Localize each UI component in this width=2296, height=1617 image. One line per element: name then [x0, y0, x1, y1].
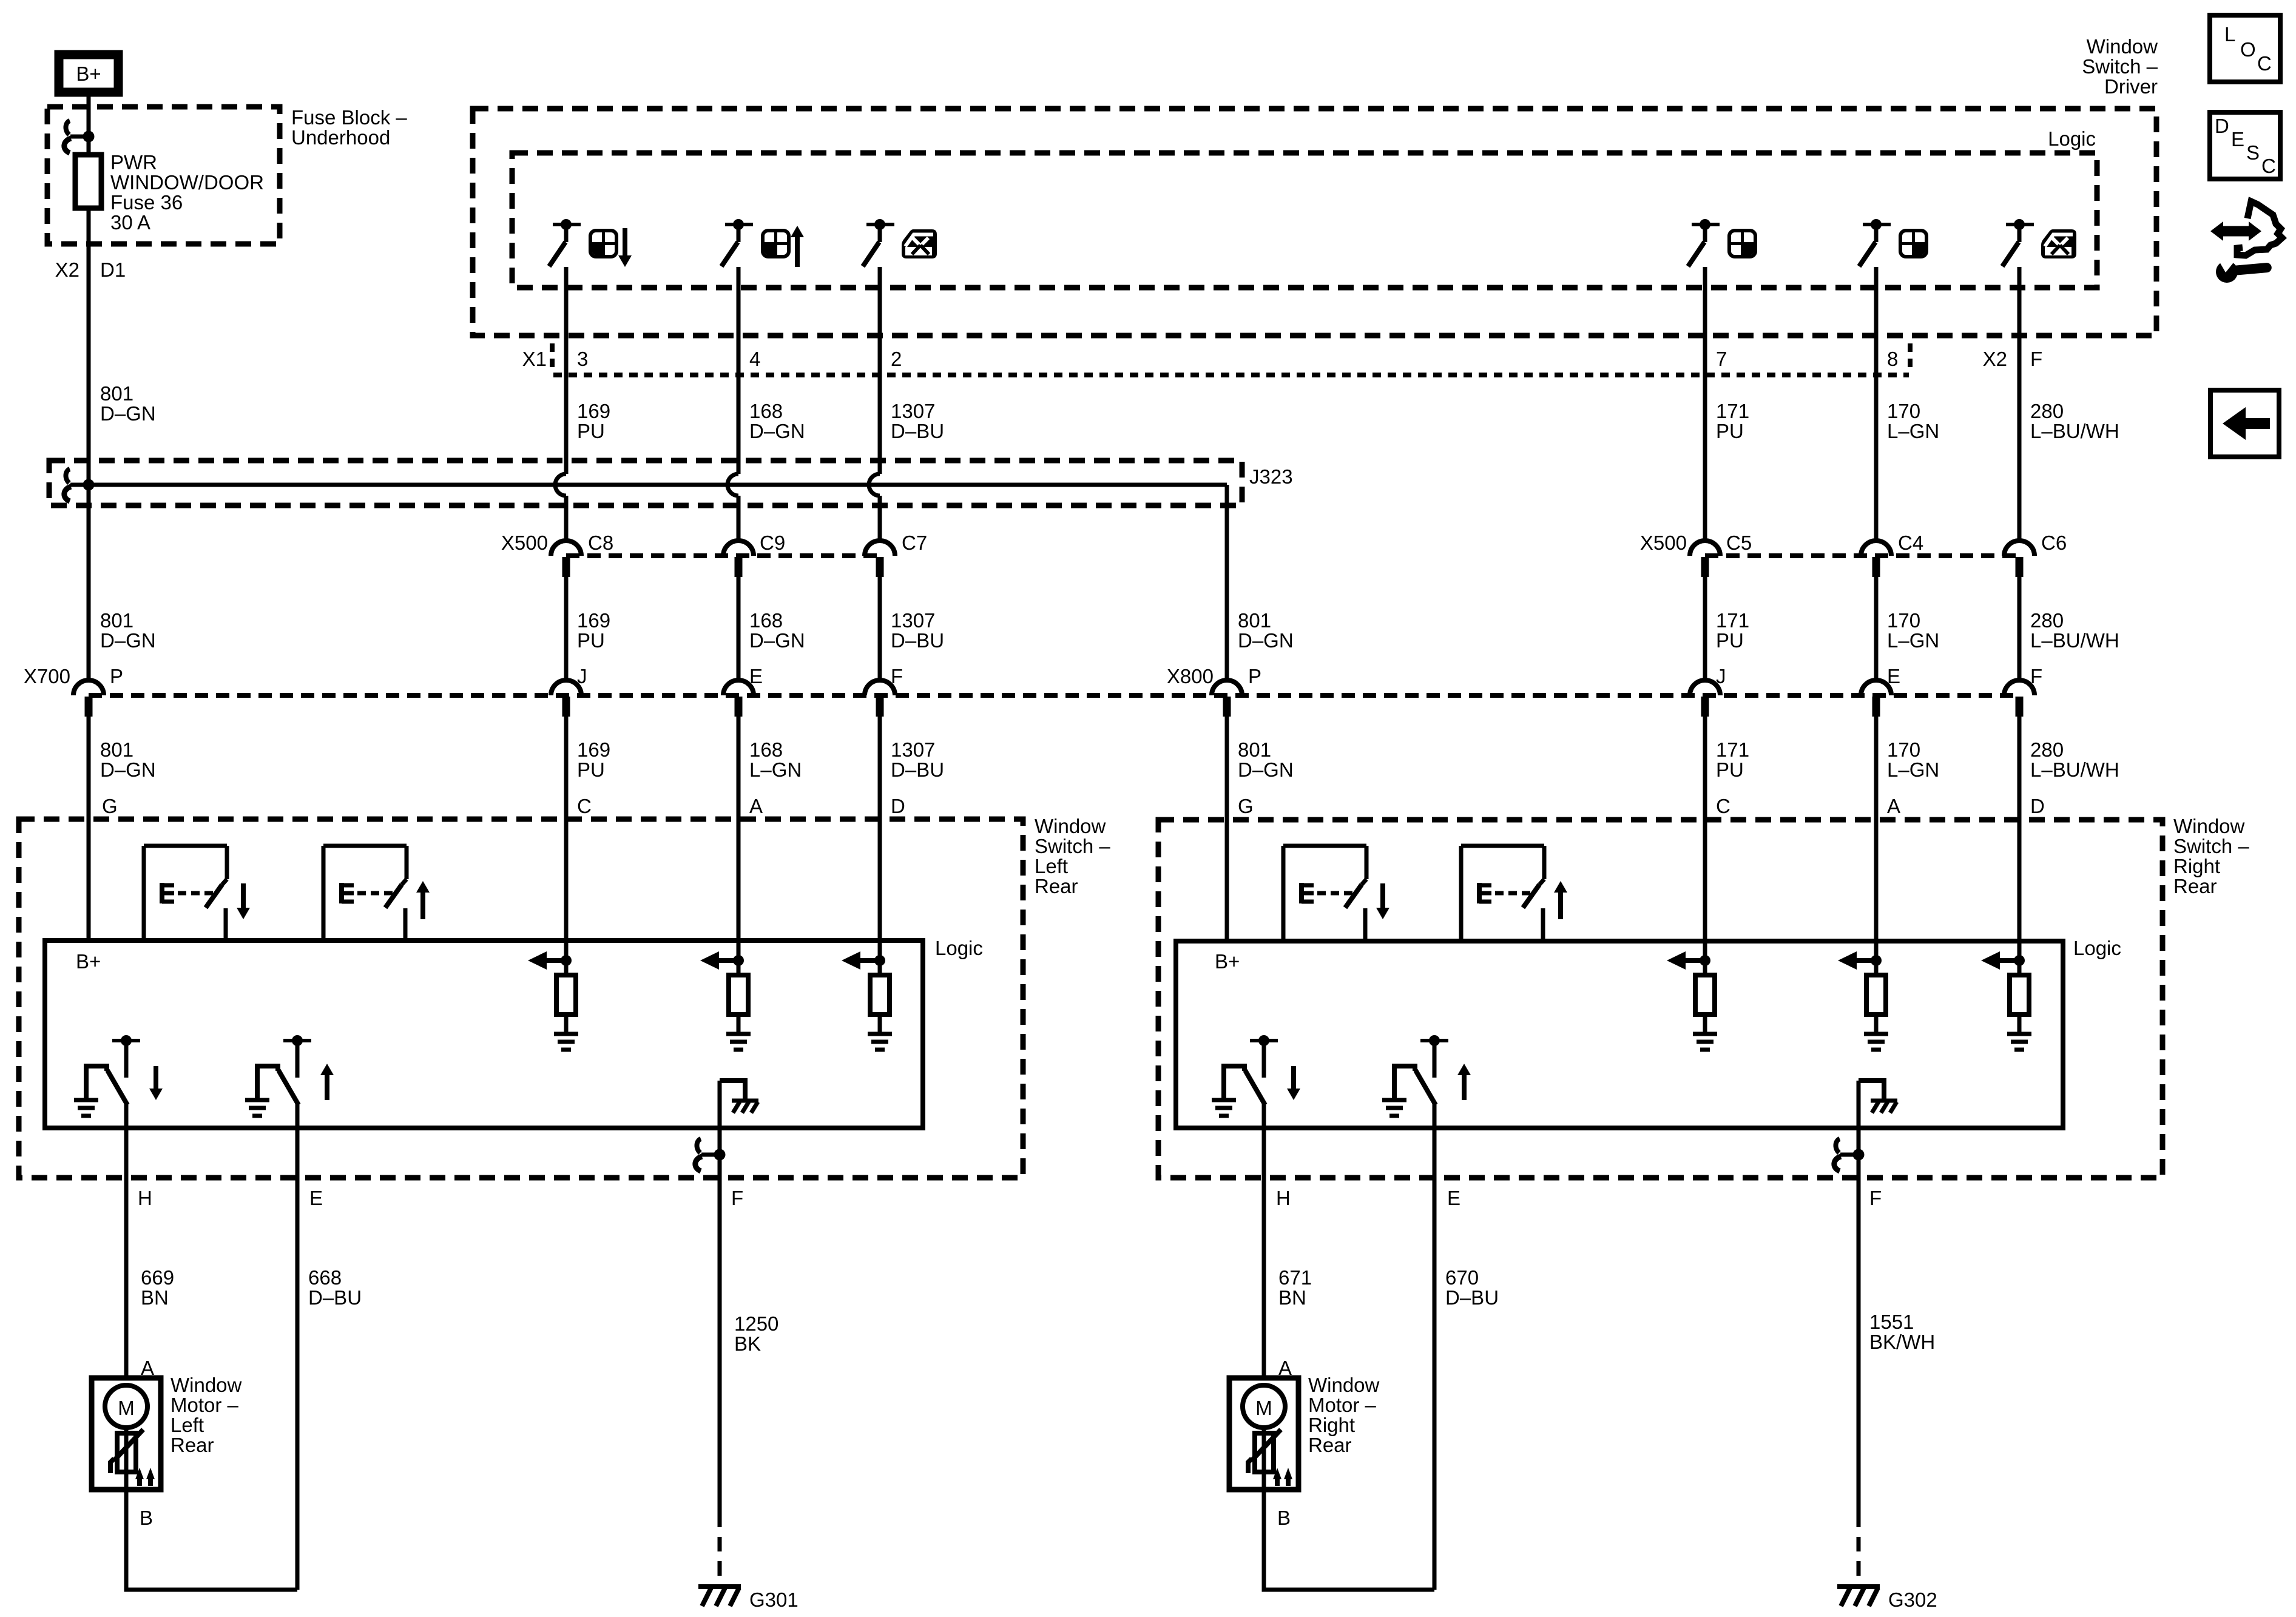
svg-text:Switch –: Switch –	[2173, 835, 2249, 857]
svg-text:C8: C8	[588, 532, 613, 554]
wire 169 X500 to X700	[564, 577, 569, 680]
driver switch window-right-rear-down with wire 171	[1688, 219, 1720, 541]
connector X700 terminal E	[723, 665, 763, 717]
label B+ left rear	[76, 950, 101, 973]
svg-text:B+: B+	[76, 62, 101, 85]
wire 171 X500 to X800	[1703, 577, 1707, 680]
svg-text:Window: Window	[1035, 815, 1106, 837]
svg-text:D: D	[2030, 795, 2045, 817]
connector X1 label	[522, 348, 547, 370]
svg-text:D–BU: D–BU	[891, 420, 944, 442]
svg-text:F: F	[2030, 348, 2042, 370]
up arrow	[791, 226, 804, 267]
wire 801 G into left logic	[87, 817, 91, 940]
wire label 168 L-GN row3	[749, 738, 802, 781]
wire label 1307 D-BU row3	[891, 738, 944, 781]
svg-text:280: 280	[2030, 400, 2064, 422]
label Window Switch - Driver	[2082, 35, 2158, 98]
svg-text:C: C	[577, 795, 592, 817]
junction dot J323	[83, 479, 95, 491]
svg-text:169: 169	[577, 609, 610, 632]
splice clip in fuse block	[64, 121, 89, 153]
svg-text:E: E	[2231, 128, 2244, 150]
svg-text:PU: PU	[1716, 420, 1744, 442]
svg-text:Window: Window	[2173, 815, 2245, 837]
driver logic dashed box	[512, 153, 2097, 288]
svg-text:C6: C6	[2041, 532, 2067, 554]
svg-text:X2: X2	[55, 258, 79, 281]
wire label 168 D-GN row2	[749, 609, 805, 652]
svg-text:G302: G302	[1888, 1588, 1937, 1611]
wire label 171 PU row1	[1716, 400, 1749, 442]
wire F left rear logic to junction	[718, 1081, 722, 1155]
wire label 801 D-GN row3	[100, 738, 156, 781]
pin 2	[891, 348, 902, 370]
case ground left rear	[720, 1081, 758, 1113]
svg-text:D–GN: D–GN	[749, 420, 805, 442]
window switch right rear outer dashed box	[1158, 820, 2163, 1178]
wire X700row down x=933	[564, 717, 569, 940]
wire label 669 BN	[141, 1266, 174, 1309]
wire F right rear down	[1857, 1155, 1861, 1513]
connector X2 pin F labels	[1983, 348, 2043, 370]
svg-text:X500: X500	[501, 532, 548, 554]
wire 801 G into right logic	[1225, 820, 1229, 941]
svg-text:Rear: Rear	[1308, 1434, 1352, 1456]
label Logic left rear	[935, 937, 983, 959]
wire label 169 PU row1	[577, 400, 610, 442]
case ground right rear	[1859, 1081, 1897, 1113]
wire label 169 PU row2	[577, 609, 610, 652]
connector X1 row dotted line	[552, 343, 1910, 375]
svg-text:X800: X800	[1167, 665, 1214, 687]
svg-text:Rear: Rear	[2173, 875, 2217, 897]
power terminal B+	[59, 55, 118, 92]
svg-text:D–BU: D–BU	[308, 1286, 362, 1309]
connector X700 terminal F	[865, 665, 903, 717]
svg-text:Left: Left	[1035, 855, 1068, 877]
resistor input 1307 left	[842, 940, 892, 1050]
pin 7	[1716, 348, 1727, 370]
wire motor left B loop to 668	[126, 1490, 297, 1590]
svg-text:169: 169	[577, 738, 610, 761]
svg-text:280: 280	[2030, 609, 2064, 632]
wire E left rear down	[295, 1105, 300, 1590]
svg-text:B: B	[1277, 1507, 1291, 1529]
svg-text:Window: Window	[2087, 35, 2158, 58]
wire label 169 PU row3	[577, 738, 610, 781]
wire label 280 L-BU/WH row3	[2030, 738, 2119, 781]
svg-text:J323: J323	[1249, 465, 1293, 488]
resistor input 170 right	[1838, 940, 1888, 1050]
express-up switch left rear	[323, 846, 430, 940]
svg-text:669: 669	[141, 1266, 174, 1289]
svg-text:L–GN: L–GN	[1887, 758, 1939, 781]
splice clip right rear	[1834, 1139, 1859, 1171]
svg-text:801: 801	[100, 609, 133, 632]
junction dot left rear F	[714, 1149, 726, 1161]
wire 170 X500 to X800	[1874, 577, 1879, 680]
wire label 1307 D-BU row2	[891, 609, 944, 652]
svg-text:F: F	[2030, 665, 2042, 687]
svg-text:PU: PU	[577, 758, 605, 781]
svg-text:WINDOW/DOOR: WINDOW/DOOR	[110, 171, 264, 194]
wire label 801 D-GN row1	[100, 382, 156, 425]
wire label 801 D-GN row3 right	[1238, 738, 1294, 781]
connector X500 terminal C7	[865, 532, 927, 577]
svg-text:F: F	[731, 1187, 743, 1209]
label Logic driver	[2048, 127, 2096, 150]
pin C label right	[1716, 795, 1730, 817]
express-down switch right rear	[1283, 846, 1389, 940]
svg-text:BK: BK	[734, 1332, 761, 1355]
svg-text:Switch –: Switch –	[2082, 55, 2158, 78]
pin E label right	[1447, 1187, 1460, 1209]
wire label 671 BN	[1278, 1266, 1312, 1309]
svg-text:1307: 1307	[891, 738, 935, 761]
wire label 1551 BK/WH	[1869, 1311, 1935, 1353]
svg-text:7: 7	[1716, 348, 1727, 370]
wire label 1307 D-BU row1	[891, 400, 944, 442]
resistor input 280 right	[1981, 940, 2031, 1050]
ground G301	[698, 1587, 799, 1611]
svg-text:171: 171	[1716, 738, 1749, 761]
window switch driver outer dashed box	[473, 109, 2156, 336]
label J323	[1249, 465, 1293, 488]
svg-text:C: C	[2261, 155, 2276, 177]
down arrow	[618, 228, 632, 267]
svg-text:280: 280	[2030, 738, 2064, 761]
window icon	[1900, 231, 1926, 257]
connector X500 terminal C9	[723, 532, 785, 577]
pin G label left	[102, 795, 118, 817]
driver switch window-right-rear-up with wire 170	[1859, 219, 1891, 541]
fuse block - underhood dashed box	[47, 107, 280, 244]
wire X700row down x=2022	[1225, 717, 1229, 940]
splice clip J323	[64, 469, 89, 501]
wire fuse to J323	[87, 208, 91, 485]
svg-text:BN: BN	[1278, 1286, 1306, 1309]
svg-text:L–BU/WH: L–BU/WH	[2030, 420, 2119, 442]
svg-text:H: H	[1276, 1187, 1291, 1209]
svg-text:Rear: Rear	[171, 1434, 214, 1456]
wire 1307 X500 to X700	[878, 577, 882, 680]
label B+ right rear	[1215, 950, 1240, 973]
svg-text:1551: 1551	[1869, 1311, 1914, 1333]
svg-text:X500: X500	[1640, 532, 1687, 554]
connector X500 terminal C8	[551, 532, 613, 577]
connector X500 left dashed line	[566, 553, 880, 558]
svg-text:Rear: Rear	[1035, 875, 1078, 897]
svg-text:168: 168	[749, 738, 783, 761]
svg-text:170: 170	[1887, 400, 1920, 422]
svg-text:D–GN: D–GN	[1238, 629, 1294, 652]
wire label 280 L-BU/WH row1	[2030, 400, 2119, 442]
svg-text:168: 168	[749, 400, 783, 422]
window motor left rear	[92, 1357, 242, 1529]
svg-text:801: 801	[1238, 738, 1271, 761]
svg-text:L–BU/WH: L–BU/WH	[2030, 629, 2119, 652]
express window icon	[2041, 229, 2076, 258]
right rear logic box	[1176, 941, 2063, 1128]
wire H right rear down	[1262, 1105, 1266, 1378]
label X700	[24, 665, 70, 687]
window motor right rear	[1229, 1357, 1380, 1529]
ground G302	[1837, 1587, 1937, 1611]
svg-text:E: E	[1887, 665, 1900, 687]
wire E right rear down	[1433, 1105, 1437, 1590]
pin F label right	[1869, 1187, 1882, 1209]
svg-text:D: D	[2215, 115, 2229, 137]
pin 3	[577, 348, 588, 370]
wire 801 left down to X700	[87, 485, 91, 680]
junction dot right rear F	[1853, 1149, 1865, 1161]
fuse F36 PWR WINDOW/DOOR 30A	[75, 151, 264, 234]
wire label 170 L-GN row2	[1887, 609, 1939, 652]
label Window Switch - Right Rear	[2173, 815, 2249, 897]
svg-text:801: 801	[1238, 609, 1271, 632]
label X500 right	[1640, 532, 1687, 554]
wire label 171 PU row2	[1716, 609, 1749, 652]
svg-text:O: O	[2240, 38, 2256, 61]
wire label 668 D-BU	[308, 1266, 362, 1309]
svg-text:169: 169	[577, 400, 610, 422]
svg-text:F: F	[891, 665, 903, 687]
connector X800 terminal J	[1690, 665, 1726, 717]
svg-text:170: 170	[1887, 609, 1920, 632]
wire 168 X500 to X700	[737, 577, 741, 680]
svg-text:B+: B+	[1215, 950, 1240, 973]
wire 1551 dashed to G302	[1857, 1513, 1861, 1581]
svg-text:J: J	[577, 665, 587, 687]
svg-text:Driver: Driver	[2104, 75, 2158, 98]
svg-text:8: 8	[1887, 348, 1898, 370]
junction dot fuse feed	[83, 131, 95, 143]
svg-text:1307: 1307	[891, 400, 935, 422]
svg-text:G: G	[1238, 795, 1254, 817]
wire 280 X500 to X800	[2017, 577, 2022, 680]
svg-text:D–GN: D–GN	[100, 402, 156, 425]
driver switch express with wire 1307	[863, 219, 894, 541]
wire 801 J323 down to X800	[1225, 485, 1229, 680]
svg-text:Fuse 36: Fuse 36	[110, 191, 183, 214]
pin H label left	[138, 1187, 152, 1209]
driver switch window-left-rear-down with wire 169	[549, 219, 581, 541]
svg-text:BK/WH: BK/WH	[1869, 1331, 1935, 1353]
wire label 170 L-GN row3	[1887, 738, 1939, 781]
svg-text:D–GN: D–GN	[100, 758, 156, 781]
wire F left rear down	[718, 1155, 722, 1513]
svg-text:C7: C7	[902, 532, 927, 554]
icon back arrow box	[2210, 390, 2279, 457]
svg-text:Logic: Logic	[2048, 127, 2096, 150]
wire X700row down x=2810	[1703, 717, 1707, 940]
svg-text:D–GN: D–GN	[1238, 758, 1294, 781]
icon LOC box	[2210, 15, 2280, 82]
svg-text:L: L	[2224, 23, 2235, 46]
svg-text:L–GN: L–GN	[1887, 629, 1939, 652]
wire X700row down x=3328	[2017, 717, 2022, 940]
svg-text:171: 171	[1716, 400, 1749, 422]
svg-text:C4: C4	[1898, 532, 1923, 554]
wire label 1250 BK	[734, 1312, 778, 1355]
svg-text:D1: D1	[100, 258, 126, 281]
svg-text:C5: C5	[1726, 532, 1752, 554]
svg-text:B+: B+	[76, 950, 101, 973]
svg-text:PU: PU	[577, 629, 605, 652]
bus wire 801 J323 horizontal	[89, 483, 1227, 487]
pin E label left	[309, 1187, 323, 1209]
svg-text:Right: Right	[2173, 855, 2220, 877]
svg-text:D–BU: D–BU	[891, 758, 944, 781]
svg-text:Underhood: Underhood	[291, 126, 390, 149]
express window icon	[902, 229, 937, 258]
pin F label left	[731, 1187, 743, 1209]
svg-text:E: E	[309, 1187, 323, 1209]
wire X700row down x=1217	[737, 717, 741, 940]
connector X700 terminal J	[551, 665, 587, 717]
svg-text:D: D	[891, 795, 905, 817]
resistor input 171 right	[1667, 940, 1717, 1050]
svg-text:670: 670	[1445, 1266, 1479, 1289]
connector X500 terminal C4	[1861, 532, 1923, 577]
left rear logic box	[45, 940, 923, 1128]
icon DESC box	[2210, 112, 2280, 179]
svg-text:801: 801	[100, 382, 133, 405]
svg-text:4: 4	[749, 348, 760, 370]
svg-text:PU: PU	[1716, 629, 1744, 652]
wire label 280 L-BU/WH row2	[2030, 609, 2119, 652]
pin 8	[1887, 348, 1898, 370]
pin A label left	[749, 795, 763, 817]
svg-text:S: S	[2246, 141, 2260, 164]
svg-text:D–GN: D–GN	[749, 629, 805, 652]
svg-text:Switch –: Switch –	[1035, 835, 1110, 857]
wire F right rear logic to junction	[1857, 1081, 1861, 1155]
pin H label right	[1276, 1187, 1291, 1209]
svg-text:M: M	[1255, 1397, 1272, 1419]
label Window Switch - Left Rear	[1035, 815, 1110, 897]
wire label 170 L-GN row1	[1887, 400, 1939, 442]
svg-text:30 A: 30 A	[110, 211, 150, 234]
svg-text:A: A	[1887, 795, 1900, 817]
resistor input 168 left	[700, 940, 751, 1050]
svg-text:1250: 1250	[734, 1312, 778, 1335]
connector X700 terminal P	[73, 665, 123, 717]
svg-text:P: P	[1248, 665, 1261, 687]
window down icon	[590, 231, 616, 257]
connector X800 terminal F	[2004, 665, 2042, 717]
svg-text:H: H	[138, 1187, 152, 1209]
wire X700row down x=3092	[1874, 717, 1879, 940]
wire label 670 D-BU	[1445, 1266, 1499, 1309]
express-down switch left rear	[144, 846, 250, 940]
connector X2 pin D1 labels	[55, 258, 126, 281]
svg-text:X2: X2	[1983, 348, 2007, 370]
label X800	[1167, 665, 1214, 687]
svg-text:168: 168	[749, 609, 783, 632]
svg-text:D–BU: D–BU	[1445, 1286, 1499, 1309]
resistor input 169 left	[528, 940, 578, 1050]
wire label 171 PU row3	[1716, 738, 1749, 781]
svg-text:F: F	[1869, 1187, 1882, 1209]
connector X700-X800 dashed line	[89, 693, 2019, 698]
svg-text:D–GN: D–GN	[100, 629, 156, 652]
svg-text:P: P	[110, 665, 123, 687]
pin G label right	[1238, 795, 1254, 817]
svg-text:X1: X1	[522, 348, 547, 370]
svg-text:G: G	[102, 795, 118, 817]
svg-text:801: 801	[100, 738, 133, 761]
svg-text:Window: Window	[1308, 1374, 1380, 1396]
wire hop at 1307	[869, 474, 880, 496]
wire hop at 168	[728, 474, 738, 496]
icon diagnostic jump arrow and wrench	[2210, 201, 2282, 283]
connector X500 terminal C5	[1690, 532, 1752, 577]
svg-text:668: 668	[308, 1266, 342, 1289]
svg-text:Motor –: Motor –	[171, 1394, 239, 1416]
svg-text:L–BU/WH: L–BU/WH	[2030, 758, 2119, 781]
wire X700row down x=146	[87, 717, 91, 940]
svg-text:Window: Window	[171, 1374, 242, 1396]
wire label 168 D-GN row1	[749, 400, 805, 442]
window icon	[1729, 231, 1755, 257]
express-up switch right rear	[1461, 846, 1567, 940]
wire motor right B loop to 670	[1264, 1490, 1434, 1590]
svg-text:Logic: Logic	[935, 937, 983, 959]
connector X500 terminal C6	[2004, 532, 2067, 577]
wire 1250 BK dashed to G301	[718, 1513, 722, 1581]
wire hop at 169	[555, 474, 566, 496]
driver switch express-right with wire 280	[2002, 219, 2034, 541]
svg-text:G301: G301	[749, 1588, 799, 1611]
wire X700row down x=1450	[878, 717, 882, 940]
label X500 left	[501, 532, 548, 554]
pin A label right	[1887, 795, 1900, 817]
output switch down right rear	[1212, 1035, 1300, 1128]
svg-text:L–GN: L–GN	[749, 758, 802, 781]
label Logic right rear	[2073, 937, 2121, 959]
pin 4	[749, 348, 760, 370]
svg-text:Motor –: Motor –	[1308, 1394, 1377, 1416]
window switch left rear outer dashed box	[19, 819, 1023, 1178]
svg-text:PU: PU	[1716, 758, 1744, 781]
svg-text:C: C	[2257, 52, 2272, 75]
wire H left rear down	[124, 1105, 129, 1378]
svg-text:L–GN: L–GN	[1887, 420, 1939, 442]
svg-text:Right: Right	[1308, 1414, 1355, 1436]
svg-text:B: B	[140, 1507, 153, 1529]
output switch down left rear	[74, 1035, 163, 1128]
svg-text:Fuse Block –: Fuse Block –	[291, 106, 407, 129]
svg-text:D–BU: D–BU	[891, 629, 944, 652]
wire label 801 D-GN row2 right	[1238, 609, 1294, 652]
svg-text:E: E	[1447, 1187, 1460, 1209]
pin D label right	[2030, 795, 2045, 817]
svg-text:1307: 1307	[891, 609, 935, 632]
svg-text:M: M	[118, 1397, 135, 1419]
output switch up left rear	[245, 1035, 334, 1128]
svg-text:X700: X700	[24, 665, 70, 687]
connector X800 terminal E	[1861, 665, 1900, 717]
svg-text:BN: BN	[141, 1286, 169, 1309]
connector X500 right dashed line	[1705, 553, 2019, 558]
svg-text:E: E	[749, 665, 763, 687]
svg-text:PWR: PWR	[110, 151, 157, 174]
connector X800 terminal P	[1212, 665, 1261, 717]
svg-text:3: 3	[577, 348, 588, 370]
svg-text:171: 171	[1716, 609, 1749, 632]
